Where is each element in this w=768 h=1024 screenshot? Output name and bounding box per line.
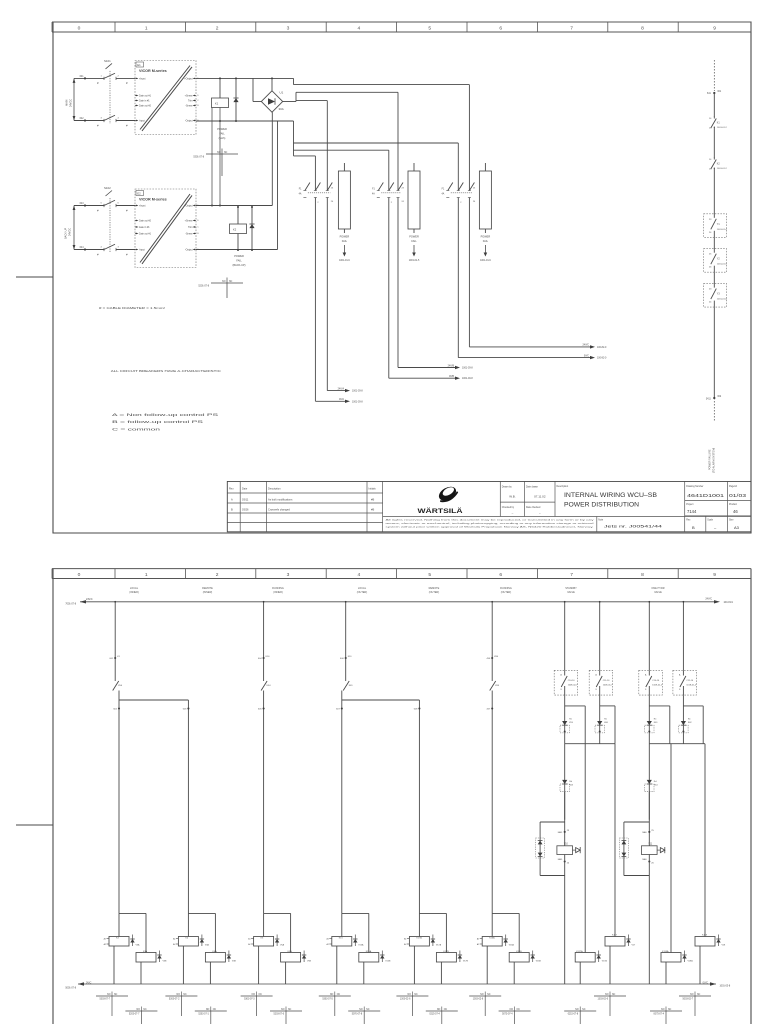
svg-text:Gate out #1: Gate out #1: [139, 233, 152, 236]
svg-text:V5A: V5A: [280, 944, 285, 947]
svg-text:4: 4: [101, 247, 103, 249]
svg-text:POWER DISTRIBUTION: POWER DISTRIBUTION: [564, 503, 639, 509]
svg-text:302: 302: [717, 396, 722, 398]
svg-text:24VDC: 24VDC: [69, 228, 72, 236]
svg-text:13: 13: [709, 169, 712, 171]
svg-text:5303-07-5: 5303-07-5: [322, 999, 333, 1001]
svg-text:A2: A2: [173, 943, 175, 946]
svg-text:Gate in #1: Gate in #1: [139, 100, 150, 103]
svg-text:K1: K1: [717, 123, 721, 125]
svg-text:7001-07-8: 7001-07-8: [65, 604, 76, 606]
svg-text:6: 6: [118, 203, 120, 205]
svg-text:Trim: Trim: [188, 226, 193, 229]
svg-text:100-82-0: 100-82-0: [597, 358, 607, 360]
svg-text:+Input: +Input: [139, 77, 146, 80]
svg-text:K63: K63: [569, 785, 574, 787]
svg-text:V16A: V16A: [509, 944, 515, 947]
svg-text:K16: K16: [266, 656, 271, 658]
svg-text:5303-07-3: 5303-07-3: [244, 999, 255, 1001]
svg-text:642: 642: [80, 118, 85, 120]
svg-text:1001-03-8: 1001-03-8: [462, 378, 473, 380]
svg-text:5201-07-8: 5201-07-8: [198, 286, 209, 288]
svg-text:1303-02-6: 1303-02-6: [598, 999, 609, 1001]
svg-text:C = common: C = common: [112, 426, 160, 431]
svg-text:POWER: POWER: [217, 127, 227, 131]
svg-text:100-82-0: 100-82-0: [597, 347, 607, 349]
svg-text:5303-07-2: 5303-07-2: [169, 999, 180, 1001]
svg-text:POWER: POWER: [481, 235, 491, 239]
svg-text:23: 23: [709, 219, 712, 221]
svg-text:0V/B: 0V/B: [449, 376, 454, 378]
svg-text:0075-07-4: 0075-07-4: [654, 1014, 665, 1016]
svg-text:W.B.: W.B.: [509, 495, 516, 499]
svg-text:A: A: [595, 674, 597, 677]
svg-text:6: 6: [499, 25, 502, 31]
svg-text:# = CABLE DIAMETER = 1.5mm²: # = CABLE DIAMETER = 1.5mm²: [99, 306, 165, 310]
svg-text:643: 643: [80, 203, 85, 205]
svg-text:Y2: Y2: [717, 259, 721, 261]
svg-text:S: S: [560, 689, 562, 691]
svg-text:Re: Re: [688, 719, 692, 721]
svg-text:NO: NO: [480, 994, 484, 996]
svg-text:(OUTER): (OUTER): [429, 591, 440, 594]
svg-text:ONE HYDR: ONE HYDR: [651, 587, 664, 590]
svg-text:NC: NC: [582, 1009, 586, 1011]
svg-text:2: 2: [317, 202, 319, 204]
svg-text:07.11.02: 07.11.02: [534, 495, 546, 499]
svg-text:V17: V17: [632, 945, 637, 947]
svg-text:1: 1: [391, 187, 393, 189]
svg-text:604: 604: [258, 658, 262, 660]
svg-text:601: 601: [110, 658, 114, 660]
svg-text:5: 5: [428, 25, 431, 31]
svg-text:(INNER): (INNER): [273, 591, 283, 594]
svg-text:NO: NO: [281, 1009, 285, 1011]
svg-text:Product: Product: [729, 503, 737, 506]
svg-text:NO: NO: [575, 1009, 579, 1011]
svg-text:K61: K61: [654, 722, 659, 724]
svg-text:1: 1: [145, 572, 148, 578]
svg-text:NO: NO: [407, 994, 411, 996]
svg-text:K2: K2: [233, 228, 237, 232]
svg-text:B = follow-up control PS: B = follow-up control PS: [112, 419, 204, 424]
svg-text:MAD: MAD: [558, 831, 563, 834]
svg-text:MAD: MAD: [642, 831, 647, 834]
svg-text:C: C: [197, 100, 199, 102]
svg-text:#B: #B: [371, 507, 374, 511]
svg-text:NO: NO: [107, 994, 111, 996]
svg-text:1001-01-9: 1001-01-9: [339, 260, 350, 262]
svg-text:5: 5: [101, 203, 103, 205]
svg-text:Checked by: Checked by: [502, 507, 515, 509]
svg-text:03/26: 03/26: [242, 507, 249, 511]
svg-text:2: 2: [216, 572, 219, 578]
svg-text:K5: K5: [261, 937, 264, 939]
svg-text:1001-03-8: 1001-03-8: [352, 391, 363, 393]
svg-text:LOCAL: LOCAL: [130, 587, 139, 590]
svg-text:A2: A2: [104, 943, 106, 946]
svg-text:301: 301: [717, 91, 722, 93]
svg-text:-Output: -Output: [185, 120, 193, 123]
svg-text:D: D: [197, 220, 199, 222]
svg-text:Jets nr. J00541/44: Jets nr. J00541/44: [604, 525, 662, 529]
svg-text:Rd: Rd: [654, 781, 658, 783]
svg-text:1001-01-2: 1001-01-2: [717, 127, 728, 129]
svg-text:Size: Size: [729, 519, 734, 521]
svg-text:26: 26: [651, 863, 654, 865]
svg-text:FAIL: FAIL: [342, 239, 348, 243]
svg-text:Note: Note: [598, 518, 604, 521]
svg-text:3: 3: [287, 25, 290, 31]
svg-text:24V/A: 24V/A: [338, 387, 345, 390]
svg-text:24V/B: 24V/B: [448, 365, 455, 367]
svg-text:-Sense: -Sense: [185, 234, 193, 236]
svg-text:#: #: [126, 123, 128, 127]
svg-text:U1: U1: [280, 91, 284, 95]
svg-text:606: 606: [340, 658, 344, 660]
svg-text:26: 26: [709, 267, 712, 269]
svg-text:A1: A1: [477, 938, 479, 941]
svg-text:0V/A: 0V/A: [339, 398, 344, 401]
svg-text:Y3: Y3: [717, 294, 721, 296]
svg-text:1: 1: [145, 25, 148, 31]
svg-text:REMOTE: REMOTE: [429, 587, 440, 590]
svg-text:K1: K1: [117, 656, 120, 658]
svg-text:23: 23: [473, 188, 476, 190]
svg-text:24: 24: [567, 863, 570, 865]
svg-text:7144: 7144: [687, 509, 697, 514]
svg-text:100E-02-2: 100E-02-2: [652, 685, 663, 687]
svg-text:K3: K3: [116, 937, 119, 939]
svg-text:(OUTER): (OUTER): [501, 591, 512, 594]
svg-text:BACK-UP: BACK-UP: [65, 228, 68, 239]
svg-text:K60: K60: [604, 722, 609, 724]
svg-text:K62: K62: [688, 722, 693, 724]
svg-text:5003-02-7: 5003-02-7: [683, 999, 694, 1001]
svg-text:A: A: [560, 674, 562, 677]
svg-text:V16B: V16B: [536, 961, 542, 963]
svg-text:Initials: Initials: [369, 488, 377, 491]
svg-text:5303-07-7: 5303-07-7: [100, 999, 111, 1001]
svg-text:FAIL: FAIL: [483, 239, 489, 243]
svg-text:C11-16: C11-16: [686, 680, 694, 682]
svg-text:46: 46: [733, 509, 738, 514]
svg-text:NC: NC: [414, 994, 418, 996]
svg-text:24V/C: 24V/C: [705, 598, 712, 601]
svg-text:1001-03-8: 1001-03-8: [720, 986, 731, 988]
svg-text:FAIL: FAIL: [236, 258, 242, 262]
svg-text:–: –: [512, 511, 514, 515]
svg-text:#: #: [97, 208, 99, 212]
svg-text:V17B: V17B: [463, 961, 469, 963]
svg-text:Rev.: Rev.: [229, 488, 234, 491]
svg-text:Description: Description: [268, 488, 281, 491]
svg-text:457: 457: [487, 709, 491, 711]
svg-text:Date drawn: Date drawn: [526, 486, 539, 489]
svg-text:Page/of: Page/of: [729, 486, 737, 488]
svg-text:#: #: [126, 81, 128, 85]
svg-text:WÄRTSILÄ: WÄRTSILÄ: [418, 507, 463, 515]
svg-text:(BACK-UP): (BACK-UP): [232, 263, 245, 267]
svg-text:1001-01-5: 1001-01-5: [717, 264, 728, 266]
svg-text:B: B: [197, 105, 199, 107]
svg-text:A1: A1: [404, 938, 406, 941]
svg-text:-Sense: -Sense: [185, 106, 193, 108]
svg-text:Date: Date: [242, 488, 248, 491]
svg-text:6: 6: [499, 572, 502, 578]
svg-text:VICOR M-series: VICOR M-series: [139, 69, 167, 73]
svg-text:ALL CIRCUIT BREAKERS HAVE A-CH: ALL CIRCUIT BREAKERS HAVE A-CHARACTERIST…: [111, 369, 222, 373]
svg-text:NO: NO: [252, 994, 256, 996]
svg-text:9: 9: [713, 25, 716, 31]
svg-text:Gate out #2: Gate out #2: [139, 105, 152, 108]
svg-text:14: 14: [709, 118, 712, 120]
svg-text:4A: 4A: [299, 193, 302, 196]
svg-text:24: 24: [473, 201, 476, 203]
svg-text:VICOR M-series: VICOR M-series: [139, 198, 167, 202]
svg-text:A1: A1: [326, 938, 328, 941]
svg-text:STANDBY: STANDBY: [565, 587, 577, 590]
svg-text:608: 608: [414, 709, 418, 711]
svg-text:Trim: Trim: [188, 100, 193, 103]
svg-text:#: #: [97, 123, 99, 127]
svg-text:0215-07-8: 0215-07-8: [568, 1014, 579, 1016]
svg-text:Rev.: Rev.: [686, 519, 691, 521]
svg-text:F1: F1: [299, 189, 302, 191]
svg-text:13: 13: [709, 128, 712, 130]
svg-text:Re: Re: [604, 719, 608, 721]
svg-text:(INNER): (INNER): [203, 591, 213, 594]
svg-text:4: 4: [358, 572, 361, 578]
svg-text:As built modifications: As built modifications: [268, 497, 293, 501]
svg-text:K59: K59: [569, 722, 574, 724]
svg-text:NC: NC: [697, 994, 701, 996]
svg-text:#: #: [97, 81, 99, 85]
svg-text:4641D1001: 4641D1001: [687, 493, 725, 498]
svg-text:(TO ALARM SYSTEM): (TO ALARM SYSTEM): [713, 448, 716, 473]
svg-text:Description: Description: [557, 485, 569, 488]
svg-text:V5B: V5B: [307, 961, 312, 963]
svg-text:1001-01-9: 1001-01-9: [480, 260, 491, 262]
svg-text:3: 3: [118, 247, 120, 249]
svg-text:V17A: V17A: [436, 944, 442, 947]
svg-text:23: 23: [709, 289, 712, 291]
svg-text:E2: E2: [137, 191, 141, 195]
svg-text:641: 641: [80, 76, 85, 78]
svg-text:K94: K94: [494, 656, 499, 658]
svg-text:F1: F1: [442, 189, 445, 191]
svg-text:603: 603: [183, 709, 187, 711]
svg-text:A: A: [679, 674, 681, 677]
svg-text:A1: A1: [173, 938, 175, 941]
svg-text:24: 24: [331, 201, 334, 203]
svg-text:Rd: Rd: [569, 781, 573, 783]
svg-text:24V/C: 24V/C: [86, 598, 93, 601]
svg-text:100E-02-7: 100E-02-7: [568, 685, 579, 687]
svg-text:01/03: 01/03: [729, 493, 747, 498]
svg-text:V15A: V15A: [358, 944, 364, 947]
svg-text:25: 25: [651, 830, 654, 832]
svg-text:(both): (both): [219, 136, 226, 140]
svg-text:456: 456: [487, 658, 491, 660]
svg-text:0215-07-4: 0215-07-4: [429, 1014, 440, 1016]
svg-text:4A: 4A: [372, 193, 375, 196]
svg-text:Gate in #1: Gate in #1: [139, 226, 150, 229]
svg-text:1303-02-6: 1303-02-6: [400, 999, 411, 1001]
svg-text:-Output: -Output: [185, 249, 193, 252]
svg-text:NO: NO: [605, 994, 609, 996]
svg-text:+Output: +Output: [184, 77, 193, 80]
svg-text:2: 2: [118, 75, 120, 77]
svg-text:K54: K54: [267, 685, 272, 687]
svg-text:V3A: V3A: [136, 944, 141, 947]
svg-text:23: 23: [331, 188, 334, 190]
svg-text:24: 24: [709, 232, 712, 234]
svg-text:Gate out #1: Gate out #1: [139, 95, 152, 98]
svg-text:0V/C: 0V/C: [584, 355, 589, 357]
svg-text:MAD: MAD: [558, 858, 563, 861]
svg-text:100-03-9: 100-03-9: [724, 602, 734, 604]
svg-text:K117: K117: [612, 934, 618, 936]
svg-text:K1: K1: [215, 102, 219, 106]
svg-text:C11-16: C11-16: [603, 680, 611, 682]
svg-text:A2: A2: [248, 943, 250, 946]
svg-text:V4B: V4B: [232, 961, 237, 963]
svg-text:Scale: Scale: [707, 519, 713, 521]
svg-text:1001-03-8: 1001-03-8: [462, 368, 473, 370]
svg-text:23: 23: [567, 830, 570, 832]
svg-text:4A: 4A: [442, 193, 445, 196]
svg-text:8: 8: [641, 25, 644, 31]
svg-text:#: #: [126, 208, 128, 212]
svg-text:NC: NC: [213, 1009, 217, 1011]
svg-text:2: 2: [460, 202, 462, 204]
svg-text:A2: A2: [404, 943, 406, 946]
svg-text:Y11: Y11: [648, 844, 653, 846]
svg-text:25: 25: [709, 254, 712, 256]
svg-text:Gate out #2: Gate out #2: [139, 220, 152, 223]
svg-text:A = Non follow-up control: A = Non follow-up control PS: [112, 412, 219, 417]
svg-text:A2: A2: [477, 943, 479, 946]
svg-text:A1: A1: [104, 938, 106, 941]
svg-text:V18: V18: [722, 945, 727, 947]
svg-text:(INNER): (INNER): [129, 591, 139, 594]
svg-text:A2: A2: [326, 943, 328, 946]
svg-text:24VDC: 24VDC: [70, 99, 73, 107]
svg-text:B: B: [692, 525, 695, 530]
svg-text:V3B: V3B: [163, 961, 168, 963]
svg-text:B: B: [231, 507, 233, 511]
svg-text:NC: NC: [288, 1009, 292, 1011]
svg-text:NO: NO: [437, 1009, 441, 1011]
svg-text:INTERNAL WIRING WCU–SB: INTERNAL WIRING WCU–SB: [564, 493, 657, 499]
svg-text:LOCAL: LOCAL: [358, 587, 367, 590]
svg-text:0: 0: [78, 25, 81, 31]
svg-text:Date checked: Date checked: [526, 506, 541, 509]
svg-text:K118: K118: [702, 934, 708, 936]
svg-text:+Output: +Output: [184, 205, 193, 208]
svg-text:3411: 3411: [706, 399, 712, 401]
svg-text:641: 641: [707, 93, 712, 95]
svg-text:means, electronic or mechanica: means, electronic or mechanical, includi…: [386, 522, 595, 525]
svg-text:K64: K64: [654, 785, 659, 787]
svg-text:(OUTER): (OUTER): [357, 591, 368, 594]
svg-text:Crossrefs changed: Crossrefs changed: [268, 507, 290, 511]
svg-text:–: –: [539, 511, 541, 515]
svg-text:101E-01-2: 101E-01-2: [686, 685, 697, 687]
svg-text:S101: S101: [104, 59, 111, 63]
svg-text:D: D: [197, 95, 199, 97]
svg-text:VALVE: VALVE: [654, 591, 662, 594]
svg-text:5203-07-7: 5203-07-7: [129, 1014, 140, 1016]
svg-text:0V/C: 0V/C: [86, 982, 92, 985]
svg-text:5203-07-6: 5203-07-6: [274, 1014, 285, 1016]
svg-text:2: 2: [391, 202, 393, 204]
svg-text:NC: NC: [444, 1009, 448, 1011]
svg-text:602: 602: [113, 709, 117, 711]
svg-text:#: #: [126, 252, 128, 256]
svg-text:NO: NO: [661, 1009, 665, 1011]
svg-text:S102: S102: [104, 186, 111, 190]
svg-text:NC: NC: [337, 994, 341, 996]
svg-text:POWER: POWER: [340, 235, 350, 239]
svg-text:K50: K50: [118, 685, 123, 687]
svg-text:1001-03-8: 1001-03-8: [352, 401, 363, 403]
svg-text:NC: NC: [517, 1009, 521, 1011]
svg-text:4: 4: [118, 118, 120, 120]
svg-text:K2: K2: [717, 164, 721, 166]
svg-text:#: #: [97, 252, 99, 256]
svg-text:MAIN: MAIN: [66, 100, 69, 106]
svg-text:23: 23: [402, 188, 405, 190]
svg-text:9: 9: [713, 572, 716, 578]
svg-text:Y1: Y1: [717, 224, 721, 226]
svg-text:MAD: MAD: [642, 858, 647, 861]
svg-text:7: 7: [570, 572, 573, 578]
svg-text:V17A: V17A: [602, 960, 608, 963]
svg-text:1001-01-5: 1001-01-5: [409, 260, 420, 262]
svg-text:RUNNING: RUNNING: [272, 587, 284, 590]
svg-text:8: 8: [641, 572, 644, 578]
svg-text:NC: NC: [366, 1009, 370, 1011]
svg-text:5203-07-1: 5203-07-1: [198, 1014, 209, 1016]
svg-text:A3: A3: [734, 525, 740, 530]
svg-text:2: 2: [216, 25, 219, 31]
svg-text:644: 644: [80, 247, 85, 249]
svg-text:3: 3: [287, 572, 290, 578]
svg-text:1: 1: [460, 187, 462, 189]
svg-text:S: S: [679, 689, 681, 691]
svg-text:NC: NC: [612, 994, 616, 996]
svg-text:5070-07-8: 5070-07-8: [352, 1014, 363, 1016]
svg-text:Re: Re: [569, 719, 573, 721]
svg-text:All rights reserved. Nothing f: All rights reserved. Nothing from this d…: [386, 519, 596, 522]
svg-text:V15B: V15B: [385, 961, 391, 963]
svg-text:101E-01-7: 101E-01-7: [603, 685, 614, 687]
svg-text:5075-07-4: 5075-07-4: [502, 1014, 513, 1016]
svg-text:1: 1: [317, 187, 319, 189]
svg-text:4: 4: [358, 25, 361, 31]
svg-text:VALVE: VALVE: [567, 591, 575, 594]
svg-text:30A: 30A: [279, 107, 284, 111]
svg-text:NC: NC: [143, 1009, 147, 1011]
svg-text:NO: NO: [136, 1009, 140, 1011]
svg-text:NC: NC: [487, 994, 491, 996]
svg-text:FAIL: FAIL: [411, 239, 417, 243]
svg-text:K15: K15: [339, 937, 344, 939]
svg-text:7: 7: [570, 25, 573, 31]
svg-text:NO: NO: [690, 994, 694, 996]
